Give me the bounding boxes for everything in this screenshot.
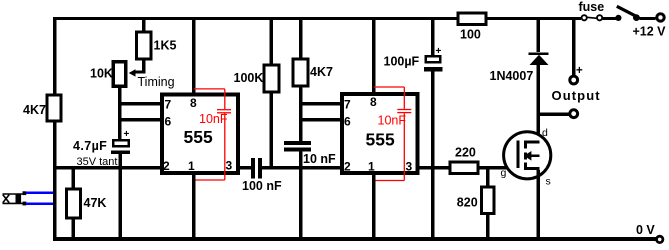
- gate bar: [517, 140, 520, 168]
- capacitor C 100uF: [384, 46, 443, 72]
- wire pot bottom node vertical: [118, 88, 122, 140]
- svg-text:555: 555: [184, 127, 213, 147]
- capacitor C 4.7uF 35V tant: [73, 129, 130, 168]
- wire top rail left segment: [53, 17, 457, 20]
- transistor Q1 MOSFET: [501, 127, 551, 187]
- svg-text:8: 8: [370, 95, 377, 109]
- svg-text:220: 220: [455, 146, 476, 160]
- svg-text:10nF: 10nF: [378, 114, 407, 128]
- capacitor red decoupling 10nF U2: [374, 87, 411, 181]
- wire 100nF to U2 pin2: [262, 166, 342, 170]
- wire pin8 U2 stub to +rail: [372, 19, 376, 94]
- resistor R 4K7 (second): [293, 59, 333, 86]
- svg-text:1N4007: 1N4007: [490, 69, 534, 83]
- resistor R 100: [458, 13, 486, 42]
- op-amp/timer U2 555 body: [342, 94, 418, 174]
- resistor R 1K5: [137, 32, 177, 59]
- channel segment middle: [524, 152, 527, 159]
- op-amp/timer U1 555 body: [162, 95, 238, 174]
- wire pin1 U2 stub to 0V: [372, 173, 376, 237]
- wire 4K7-2 top lead: [299, 19, 303, 60]
- svg-text:+12 V: +12 V: [633, 25, 667, 39]
- wire 4K7-2 bottom lead: [299, 86, 303, 141]
- wire 220 to gate: [479, 166, 517, 169]
- svg-text:s: s: [546, 175, 551, 187]
- svg-text:7: 7: [344, 98, 351, 112]
- wire top rail between 100 resistor and fuse: [487, 17, 581, 20]
- svg-text:1: 1: [188, 159, 195, 173]
- terminal +12V: [633, 14, 667, 39]
- fuse F1: [582, 15, 603, 20]
- svg-text:1: 1: [368, 160, 375, 174]
- svg-text:8: 8: [190, 96, 197, 110]
- svg-text:+: +: [576, 65, 583, 77]
- resistor R 220: [450, 146, 478, 174]
- terminal output plus: [570, 65, 583, 84]
- resistor R 4K7 (left): [23, 95, 61, 121]
- wire pin3 U2 to 220: [419, 166, 450, 170]
- resistor R 100K: [234, 65, 280, 92]
- svg-text:10nF: 10nF: [199, 112, 228, 126]
- wire 47K bottom lead: [72, 218, 76, 238]
- wire pin7 U1: [118, 102, 162, 106]
- wire pin8 U1 stub to +rail: [192, 19, 196, 95]
- svg-text:3: 3: [226, 159, 233, 173]
- wire 10nF bottom lead to 0V: [299, 152, 303, 238]
- wire 820 bottom lead: [486, 214, 490, 238]
- svg-text:2: 2: [163, 159, 170, 173]
- wire 1K5 bottom lead to wiper: [142, 59, 146, 72]
- capacitor red decoupling 10nF U1: [194, 89, 231, 180]
- wire left rail: [53, 17, 57, 241]
- switch S1: [615, 6, 639, 21]
- wire 100K bottom lead: [270, 92, 274, 167]
- potentiometer 10K: [90, 62, 126, 87]
- wire pin6 U2: [299, 118, 340, 122]
- channel segment top: [524, 140, 527, 148]
- svg-text:100: 100: [460, 28, 481, 42]
- wire 100uF bottom lead to 0V: [431, 72, 435, 238]
- svg-text:4K7: 4K7: [23, 103, 46, 117]
- wire 47K top lead: [72, 169, 76, 189]
- wire blue signal top: [26, 192, 53, 195]
- svg-text:100 nF: 100 nF: [242, 179, 282, 193]
- wire pin7 U2: [299, 102, 340, 106]
- wire source to 0V: [537, 170, 541, 238]
- wire 1K5 top lead: [142, 19, 146, 33]
- wire top rail switch to +12V terminal: [640, 17, 656, 20]
- svg-text:10 nF: 10 nF: [303, 152, 336, 166]
- wire 4.7uF bottom lead to 0V: [119, 154, 123, 238]
- svg-text:4K7: 4K7: [310, 65, 333, 79]
- svg-text:47K: 47K: [84, 196, 107, 210]
- input jack plug: [3, 191, 27, 205]
- resistor R 47K: [67, 189, 107, 218]
- wire pin6 U1: [118, 118, 162, 122]
- wire diode top lead: [537, 19, 541, 52]
- capacitor C 100nF: [242, 158, 282, 193]
- drain inner connection: [527, 140, 540, 143]
- svg-text:g: g: [501, 167, 507, 179]
- wire pin2 U1 from left rail: [53, 166, 162, 170]
- svg-text:Timing: Timing: [138, 75, 175, 89]
- svg-text:+: +: [124, 129, 130, 140]
- svg-text:6: 6: [344, 115, 351, 129]
- svg-text:0 V: 0 V: [636, 223, 655, 237]
- svg-text:1K5: 1K5: [154, 39, 177, 53]
- svg-text:Output: Output: [552, 88, 601, 103]
- source inner connection: [527, 167, 540, 170]
- wire pin3 U1: [239, 166, 252, 170]
- capacitor C 10nF: [284, 141, 336, 166]
- svg-text:7: 7: [165, 98, 172, 112]
- resistor R 820: [457, 187, 494, 214]
- wire diode bottom / drain vertical: [537, 64, 541, 143]
- wire wiper horizontal: [134, 70, 146, 73]
- wire output minus horizontal: [538, 113, 570, 117]
- svg-text:3: 3: [406, 160, 413, 174]
- body arrow: [530, 154, 540, 157]
- wire 100K top lead: [270, 19, 274, 66]
- svg-text:4.7µF: 4.7µF: [73, 139, 107, 153]
- wire 100uF top lead: [431, 19, 435, 56]
- svg-text:820: 820: [457, 196, 478, 210]
- terminal 0V: [636, 223, 663, 243]
- wiper arrowhead: [129, 69, 136, 76]
- terminal output minus: [570, 110, 578, 118]
- svg-text:555: 555: [366, 130, 395, 150]
- svg-text:6: 6: [165, 115, 172, 129]
- wire blue signal bottom: [26, 202, 53, 205]
- channel segment bottom: [524, 163, 527, 171]
- wire output plus tap: [572, 19, 576, 76]
- svg-text:fuse: fuse: [579, 0, 605, 14]
- wire bottom rail (0V): [53, 237, 657, 241]
- svg-text:2: 2: [344, 160, 351, 174]
- wire pin1 U1 stub to 0V: [192, 173, 196, 237]
- svg-text:10K: 10K: [90, 67, 113, 81]
- svg-text:100K: 100K: [234, 71, 264, 85]
- svg-text:100µF: 100µF: [384, 55, 420, 69]
- diode D 1N4007: [490, 53, 549, 84]
- svg-text:d: d: [542, 127, 548, 139]
- wire top rail fuse to switch dot: [603, 17, 617, 20]
- wire 820 top lead: [486, 169, 490, 187]
